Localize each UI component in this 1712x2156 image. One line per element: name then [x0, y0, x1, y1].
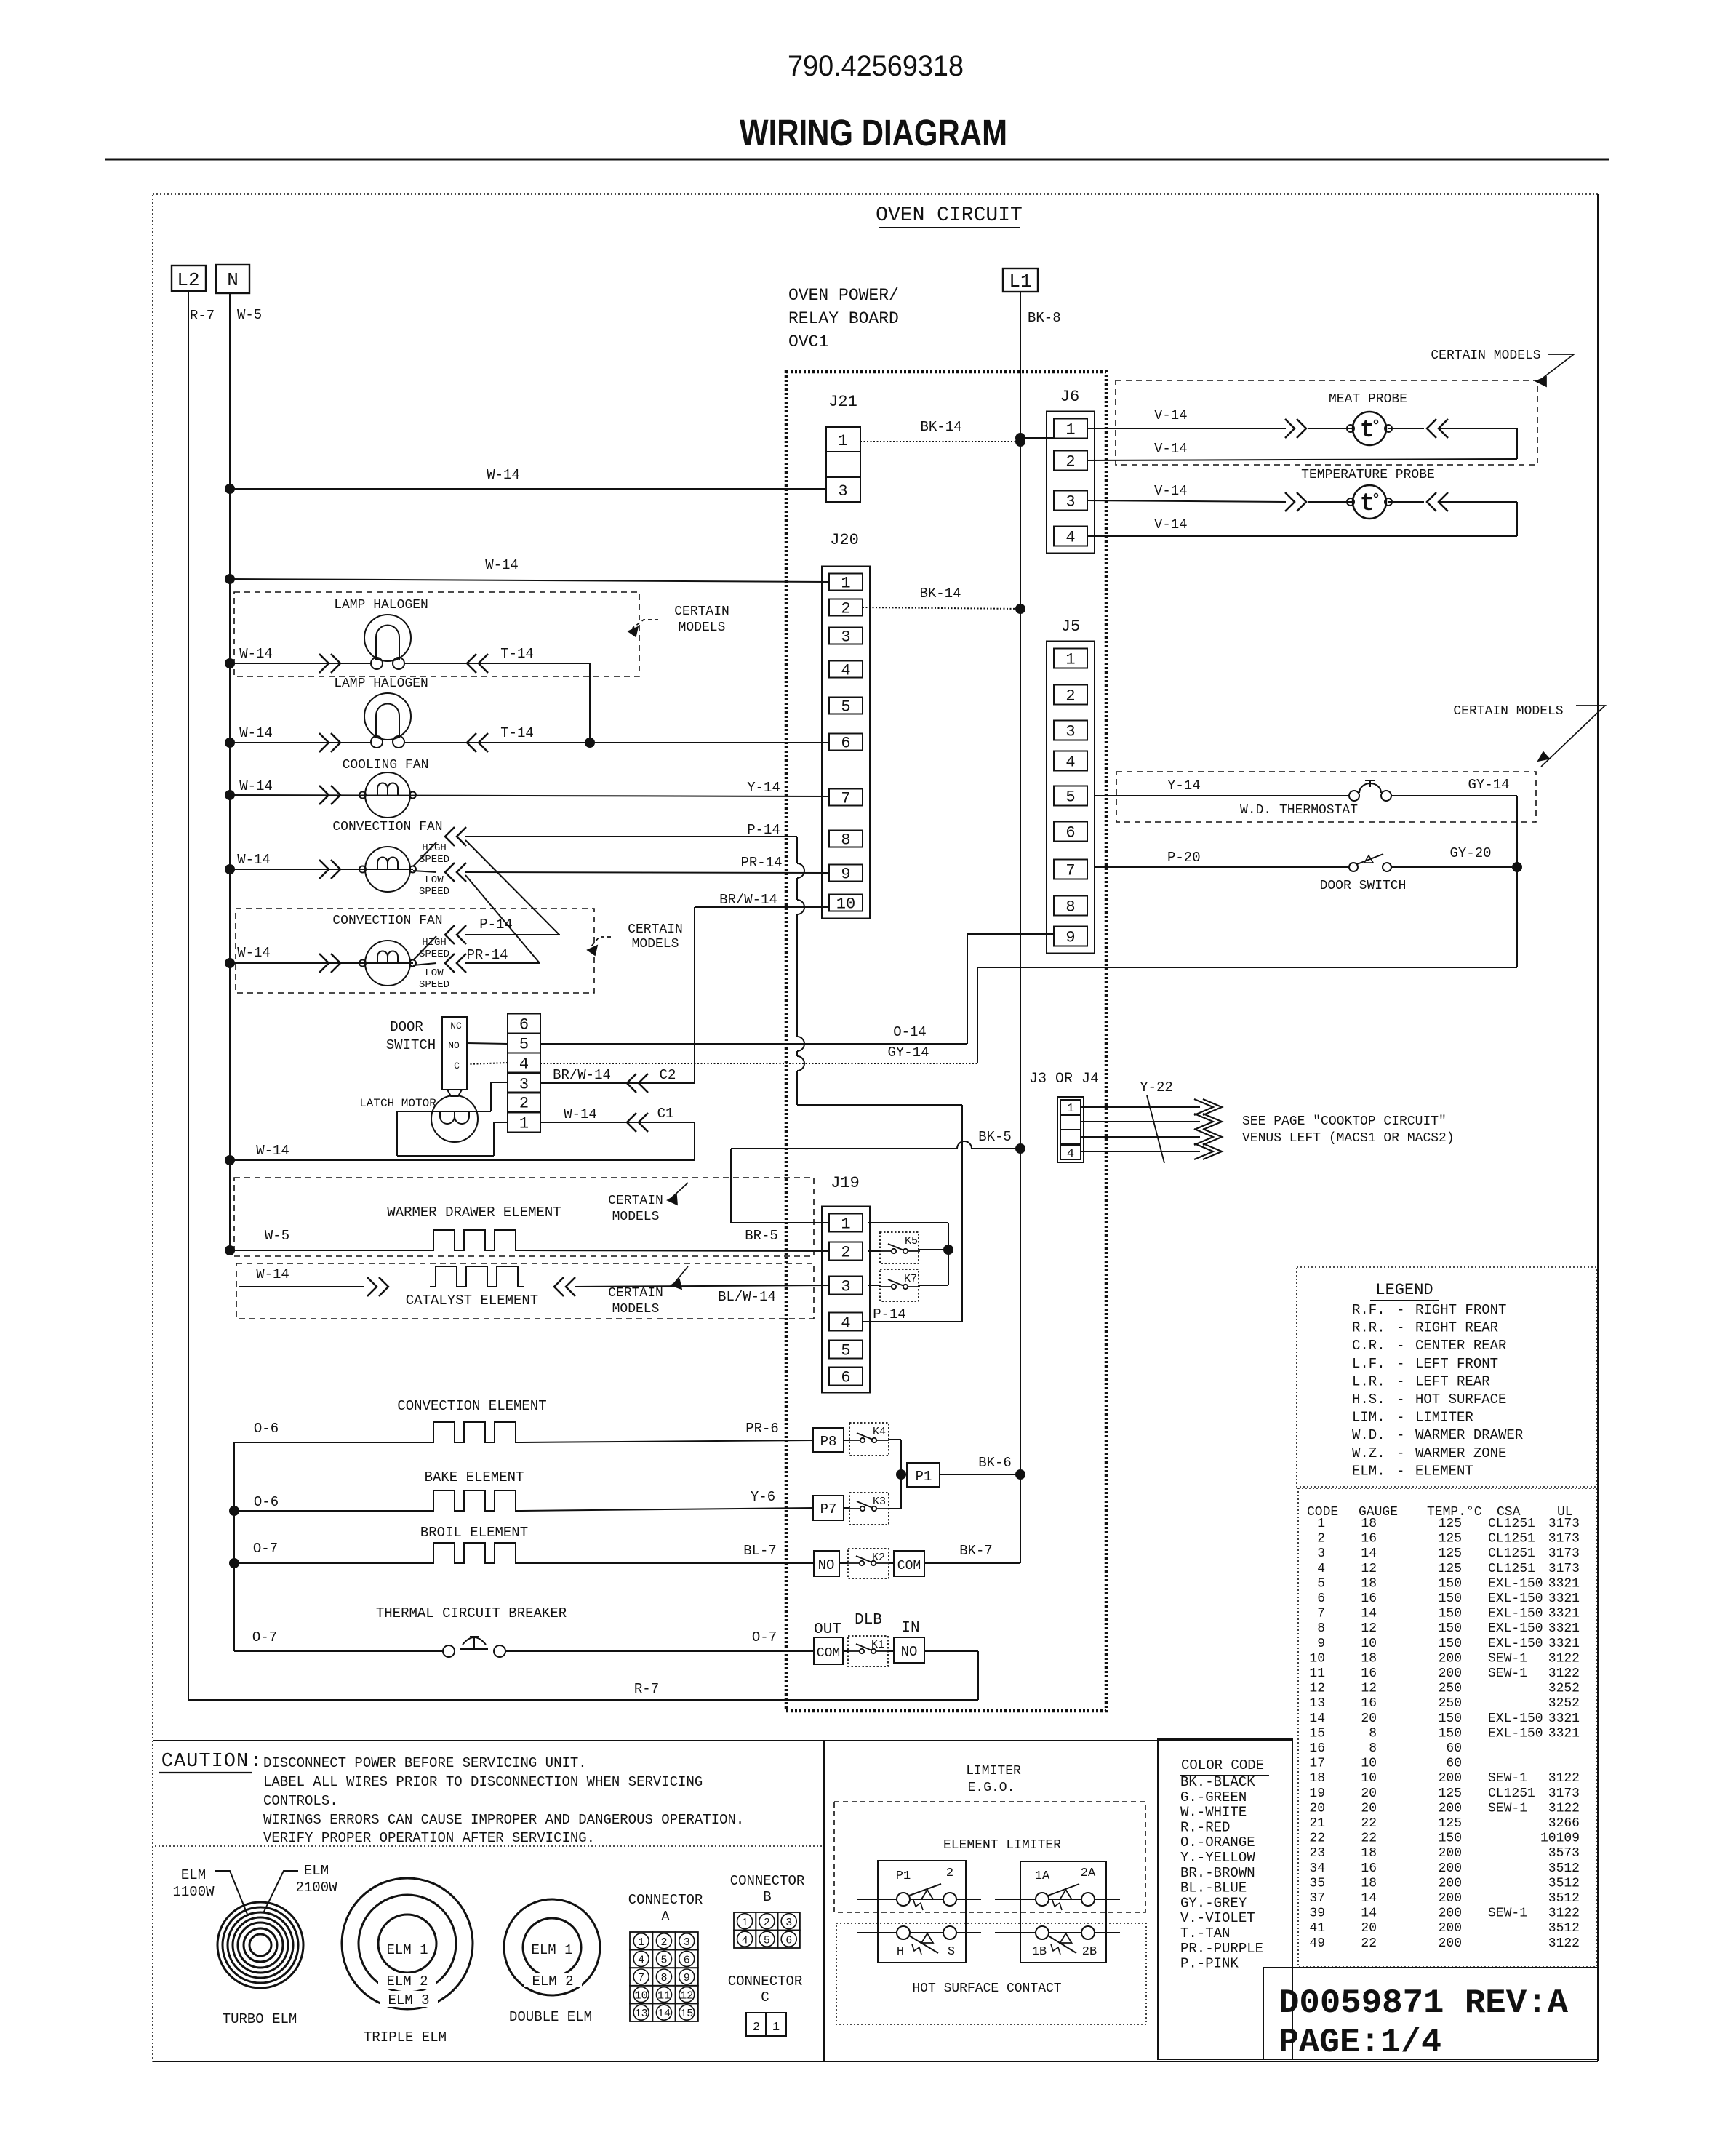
- svg-text:6: 6: [785, 1934, 792, 1947]
- svg-text:EXL-150: EXL-150: [1488, 1576, 1543, 1591]
- svg-text:COOLING FAN: COOLING FAN: [343, 758, 429, 772]
- svg-text:7: 7: [1065, 862, 1075, 880]
- svg-text:200: 200: [1439, 1861, 1462, 1876]
- svg-text:LEFT REAR: LEFT REAR: [1415, 1373, 1490, 1389]
- svg-text:12: 12: [1309, 1682, 1325, 1696]
- svg-text:EXL-150: EXL-150: [1488, 1726, 1543, 1741]
- svg-text:3321: 3321: [1548, 1712, 1580, 1726]
- svg-text:14: 14: [1361, 1607, 1377, 1621]
- svg-text:CATALYST ELEMENT: CATALYST ELEMENT: [406, 1293, 538, 1309]
- svg-text:T-14: T-14: [500, 646, 534, 662]
- svg-text:W-14: W-14: [239, 725, 273, 741]
- svg-text:1: 1: [841, 1215, 850, 1234]
- svg-text:W-5: W-5: [265, 1228, 289, 1244]
- svg-text:16: 16: [1361, 1666, 1377, 1681]
- svg-text:125: 125: [1439, 1532, 1462, 1546]
- svg-text:W.Z.: W.Z.: [1352, 1445, 1385, 1461]
- svg-text:LIMITER: LIMITER: [966, 1764, 1021, 1778]
- svg-text:PR-14: PR-14: [466, 947, 508, 963]
- svg-text:-: -: [1396, 1320, 1404, 1336]
- svg-text:150: 150: [1439, 1637, 1462, 1651]
- svg-text:LIM.: LIM.: [1352, 1410, 1385, 1426]
- svg-text:12: 12: [1361, 1621, 1377, 1636]
- svg-text:150: 150: [1439, 1712, 1462, 1726]
- svg-text:TEMPERATURE PROBE: TEMPERATURE PROBE: [1301, 468, 1435, 482]
- svg-text:150: 150: [1439, 1576, 1462, 1591]
- svg-text:CONVECTION FAN: CONVECTION FAN: [332, 820, 442, 834]
- svg-text:PR-14: PR-14: [740, 855, 782, 871]
- svg-text:N: N: [227, 269, 239, 291]
- svg-text:3122: 3122: [1548, 1907, 1580, 1921]
- svg-text:10: 10: [1361, 1771, 1377, 1786]
- svg-text:34: 34: [1309, 1861, 1325, 1876]
- svg-text:GY-14: GY-14: [1468, 777, 1509, 793]
- svg-text:2: 2: [764, 1917, 770, 1929]
- svg-text:P.-PINK: P.-PINK: [1180, 1956, 1239, 1972]
- svg-text:8: 8: [1369, 1726, 1377, 1741]
- svg-text:150: 150: [1439, 1726, 1462, 1741]
- svg-text:10: 10: [1309, 1651, 1325, 1666]
- svg-text:HOT SURFACE CONTACT: HOT SURFACE CONTACT: [912, 1981, 1061, 1996]
- svg-text:60: 60: [1446, 1741, 1462, 1756]
- svg-text:LOW: LOW: [425, 874, 444, 886]
- svg-text:22: 22: [1361, 1832, 1377, 1846]
- svg-text:7: 7: [1317, 1607, 1325, 1621]
- svg-text:W-14: W-14: [485, 557, 519, 573]
- svg-text:-: -: [1396, 1463, 1404, 1479]
- svg-text:3122: 3122: [1548, 1936, 1580, 1951]
- svg-text:RIGHT FRONT: RIGHT FRONT: [1415, 1302, 1506, 1318]
- svg-text:21: 21: [1309, 1816, 1325, 1831]
- svg-text:200: 200: [1439, 1666, 1462, 1681]
- svg-text:3: 3: [785, 1917, 792, 1929]
- svg-text:6: 6: [519, 1016, 529, 1034]
- svg-text:4: 4: [841, 1314, 850, 1333]
- svg-text:R.F.: R.F.: [1352, 1302, 1385, 1318]
- svg-text:O-6: O-6: [254, 1494, 279, 1510]
- svg-text:13: 13: [635, 2008, 648, 2020]
- svg-text:J19: J19: [831, 1174, 860, 1192]
- svg-text:W-5: W-5: [237, 307, 262, 323]
- svg-text:10: 10: [635, 1990, 648, 2003]
- svg-text:-: -: [1396, 1410, 1404, 1426]
- svg-text:10: 10: [836, 895, 855, 914]
- svg-text:W.D. THERMOSTAT: W.D. THERMOSTAT: [1240, 803, 1358, 818]
- svg-text:EXL-150: EXL-150: [1488, 1712, 1543, 1726]
- svg-text:BK-7: BK-7: [959, 1543, 993, 1559]
- svg-text:CL1251: CL1251: [1488, 1546, 1535, 1561]
- svg-text:BL-7: BL-7: [743, 1543, 777, 1559]
- svg-text:P8: P8: [820, 1434, 837, 1450]
- svg-text:BR/W-14: BR/W-14: [553, 1067, 611, 1083]
- svg-text:THERMAL CIRCUIT BREAKER: THERMAL CIRCUIT BREAKER: [376, 1605, 567, 1621]
- svg-text:BAKE ELEMENT: BAKE ELEMENT: [425, 1469, 524, 1485]
- svg-text:2B: 2B: [1082, 1945, 1097, 1959]
- svg-text:14: 14: [1361, 1907, 1377, 1921]
- svg-text:EXL-150: EXL-150: [1488, 1621, 1543, 1636]
- svg-text:3: 3: [1065, 493, 1075, 511]
- svg-text:60: 60: [1446, 1757, 1462, 1771]
- svg-text:17: 17: [1309, 1757, 1325, 1771]
- svg-text:K2: K2: [872, 1552, 885, 1564]
- svg-text:LABEL ALL WIRES PRIOR TO DISCO: LABEL ALL WIRES PRIOR TO DISCONNECTION W…: [263, 1774, 703, 1790]
- svg-text:E.G.O.: E.G.O.: [968, 1781, 1015, 1795]
- svg-text:200: 200: [1439, 1651, 1462, 1666]
- svg-text:5: 5: [764, 1934, 770, 1947]
- svg-text:CONNECTOR: CONNECTOR: [730, 1873, 805, 1889]
- svg-text:NO: NO: [448, 1040, 460, 1051]
- svg-text:L1: L1: [1009, 271, 1031, 292]
- svg-text:P-14: P-14: [873, 1306, 906, 1322]
- svg-text:1: 1: [1317, 1517, 1325, 1531]
- svg-text:MODELS: MODELS: [679, 620, 726, 635]
- svg-text:2: 2: [1317, 1532, 1325, 1546]
- svg-text:V-14: V-14: [1154, 516, 1188, 532]
- svg-text:9: 9: [1317, 1637, 1325, 1651]
- svg-text:RELAY BOARD: RELAY BOARD: [788, 309, 899, 328]
- svg-text:t: t: [1360, 490, 1375, 518]
- svg-text:P1: P1: [896, 1869, 911, 1883]
- svg-text:7: 7: [638, 1972, 644, 1984]
- svg-text:49: 49: [1309, 1936, 1325, 1951]
- svg-text:5: 5: [1065, 788, 1075, 807]
- svg-text:P-14: P-14: [747, 822, 780, 838]
- svg-text:WARMER ZONE: WARMER ZONE: [1415, 1445, 1506, 1461]
- svg-text:14: 14: [1361, 1891, 1377, 1906]
- svg-text:15: 15: [680, 2008, 693, 2020]
- svg-text:35: 35: [1309, 1876, 1325, 1891]
- svg-text:P-14: P-14: [479, 917, 513, 933]
- svg-text:2A: 2A: [1081, 1866, 1096, 1880]
- svg-text:14: 14: [1361, 1546, 1377, 1561]
- svg-text:4: 4: [638, 1954, 644, 1966]
- svg-text:GY-20: GY-20: [1449, 845, 1491, 861]
- svg-text:-: -: [1396, 1302, 1404, 1318]
- svg-text:C.R.: C.R.: [1352, 1338, 1385, 1354]
- svg-text:COM: COM: [897, 1559, 921, 1573]
- svg-text:-: -: [1396, 1356, 1404, 1372]
- svg-text:7: 7: [841, 790, 850, 808]
- svg-text:3266: 3266: [1548, 1816, 1580, 1831]
- svg-text:3122: 3122: [1548, 1801, 1580, 1816]
- svg-text:4: 4: [841, 662, 850, 680]
- svg-text:D0059871 REV:A: D0059871 REV:A: [1279, 1984, 1568, 2022]
- svg-text:J21: J21: [828, 393, 857, 411]
- svg-text:TURBO ELM: TURBO ELM: [223, 2011, 297, 2027]
- svg-text:3122: 3122: [1548, 1651, 1580, 1666]
- svg-text:1: 1: [742, 1917, 748, 1929]
- svg-text:T.-TAN: T.-TAN: [1180, 1925, 1230, 1941]
- svg-text:Y.-YELLOW: Y.-YELLOW: [1180, 1850, 1255, 1866]
- svg-text:8: 8: [841, 831, 850, 850]
- svg-text:J5: J5: [1061, 618, 1080, 636]
- svg-text:NO: NO: [818, 1557, 835, 1573]
- svg-text:PR.-PURPLE: PR.-PURPLE: [1180, 1941, 1263, 1957]
- svg-text:2: 2: [1065, 687, 1075, 706]
- svg-text:1100W: 1100W: [172, 1884, 215, 1900]
- svg-text:t: t: [1360, 417, 1375, 444]
- svg-text:S: S: [948, 1945, 955, 1959]
- svg-text:3: 3: [841, 628, 850, 647]
- svg-text:SEW-1: SEW-1: [1488, 1771, 1527, 1786]
- svg-text:H.S.: H.S.: [1352, 1392, 1385, 1408]
- svg-text:MODELS: MODELS: [632, 937, 679, 951]
- svg-text:8: 8: [1317, 1621, 1325, 1636]
- svg-text:16: 16: [1361, 1861, 1377, 1876]
- svg-text:1: 1: [1065, 421, 1075, 439]
- svg-text:8: 8: [1065, 898, 1075, 917]
- svg-text:CL1251: CL1251: [1488, 1562, 1535, 1576]
- svg-text:Y-6: Y-6: [751, 1489, 775, 1505]
- svg-text:CONVECTION ELEMENT: CONVECTION ELEMENT: [397, 1398, 546, 1414]
- svg-text:SWITCH: SWITCH: [386, 1037, 436, 1053]
- svg-text:L.R.: L.R.: [1352, 1373, 1385, 1389]
- svg-text:DOOR: DOOR: [390, 1019, 423, 1035]
- svg-text:A: A: [661, 1909, 670, 1925]
- svg-text:12: 12: [680, 1990, 693, 2003]
- svg-text:BK-6: BK-6: [978, 1455, 1012, 1471]
- svg-text:3512: 3512: [1548, 1891, 1580, 1906]
- svg-text:200: 200: [1439, 1907, 1462, 1921]
- svg-text::: :: [250, 1751, 262, 1773]
- svg-text:-: -: [1396, 1373, 1404, 1389]
- svg-text:20: 20: [1361, 1712, 1377, 1726]
- svg-text:MODELS: MODELS: [612, 1302, 660, 1317]
- svg-text:16: 16: [1309, 1741, 1325, 1756]
- svg-text:W.D.: W.D.: [1352, 1427, 1385, 1443]
- svg-text:6: 6: [841, 1369, 850, 1387]
- svg-text:1: 1: [841, 575, 850, 593]
- svg-text:3173: 3173: [1548, 1562, 1580, 1576]
- svg-text:200: 200: [1439, 1921, 1462, 1936]
- svg-text:ELM 3: ELM 3: [388, 1992, 429, 2008]
- svg-text:3573: 3573: [1548, 1846, 1580, 1861]
- svg-text:MODELS: MODELS: [612, 1210, 660, 1224]
- svg-text:CONTROLS.: CONTROLS.: [263, 1793, 338, 1809]
- svg-text:2: 2: [660, 1936, 667, 1949]
- svg-text:V-14: V-14: [1154, 441, 1188, 457]
- svg-text:5: 5: [519, 1036, 529, 1054]
- svg-text:15: 15: [1309, 1726, 1325, 1741]
- svg-text:C1: C1: [657, 1106, 674, 1122]
- svg-text:WARMER DRAWER: WARMER DRAWER: [1415, 1427, 1523, 1443]
- svg-text:RIGHT REAR: RIGHT REAR: [1415, 1320, 1498, 1336]
- svg-text:22: 22: [1309, 1832, 1325, 1846]
- svg-text:J20: J20: [830, 531, 859, 549]
- svg-text:37: 37: [1309, 1891, 1325, 1906]
- svg-text:9: 9: [841, 866, 850, 884]
- svg-text:BK-14: BK-14: [920, 419, 961, 435]
- svg-text:1: 1: [838, 432, 847, 450]
- svg-text:Y-14: Y-14: [1167, 778, 1201, 794]
- svg-text:PAGE:1/4: PAGE:1/4: [1279, 2024, 1441, 2061]
- svg-text:DOUBLE ELM: DOUBLE ELM: [509, 2009, 592, 2025]
- svg-text:125: 125: [1439, 1562, 1462, 1576]
- svg-text:250: 250: [1439, 1682, 1462, 1696]
- svg-text:5: 5: [660, 1954, 667, 1966]
- svg-text:P-20: P-20: [1167, 850, 1201, 866]
- svg-text:200: 200: [1439, 1936, 1462, 1951]
- svg-text:BL.-BLUE: BL.-BLUE: [1180, 1880, 1247, 1896]
- svg-text:R-7: R-7: [190, 308, 215, 324]
- svg-text:3512: 3512: [1548, 1921, 1580, 1936]
- svg-text:4: 4: [1067, 1147, 1074, 1161]
- svg-text:3173: 3173: [1548, 1532, 1580, 1546]
- svg-text:200: 200: [1439, 1801, 1462, 1816]
- svg-text:20: 20: [1309, 1801, 1325, 1816]
- svg-text:14: 14: [657, 2008, 671, 2020]
- svg-text:3321: 3321: [1548, 1576, 1580, 1591]
- svg-text:R.-RED: R.-RED: [1180, 1819, 1230, 1835]
- svg-text:1A: 1A: [1035, 1869, 1050, 1883]
- svg-text:CL1251: CL1251: [1488, 1786, 1535, 1801]
- svg-text:J3 OR J4: J3 OR J4: [1029, 1071, 1099, 1087]
- svg-text:3: 3: [1065, 723, 1075, 741]
- svg-text:W-14: W-14: [237, 852, 271, 868]
- svg-text:10: 10: [1361, 1637, 1377, 1651]
- svg-text:5: 5: [841, 698, 850, 716]
- svg-text:-: -: [1396, 1427, 1404, 1443]
- svg-text:ELM 1: ELM 1: [531, 1942, 572, 1958]
- svg-text:2: 2: [753, 2021, 760, 2035]
- svg-text:SEW-1: SEW-1: [1488, 1801, 1527, 1816]
- svg-text:LEGEND: LEGEND: [1375, 1281, 1433, 1299]
- svg-text:4: 4: [742, 1934, 748, 1947]
- svg-text:ELEMENT LIMITER: ELEMENT LIMITER: [943, 1838, 1061, 1853]
- svg-text:CERTAIN MODELS: CERTAIN MODELS: [1453, 704, 1563, 719]
- svg-text:3173: 3173: [1548, 1786, 1580, 1801]
- svg-text:V.-VIOLET: V.-VIOLET: [1180, 1910, 1255, 1926]
- svg-text:T-14: T-14: [500, 725, 534, 741]
- svg-text:CENTER REAR: CENTER REAR: [1415, 1338, 1506, 1354]
- svg-text:2: 2: [841, 1244, 850, 1262]
- svg-text:G.-GREEN: G.-GREEN: [1180, 1789, 1247, 1805]
- svg-text:3321: 3321: [1548, 1726, 1580, 1741]
- svg-text:LOW: LOW: [425, 967, 444, 979]
- svg-text:WIRINGS ERRORS CAN CAUSE IMPRO: WIRINGS ERRORS CAN CAUSE IMPROPER AND DA…: [263, 1812, 744, 1828]
- svg-text:6: 6: [841, 735, 850, 753]
- svg-text:SEW-1: SEW-1: [1488, 1651, 1527, 1666]
- svg-text:ELM: ELM: [181, 1867, 206, 1883]
- svg-text:CERTAIN: CERTAIN: [608, 1194, 663, 1208]
- svg-text:EXL-150: EXL-150: [1488, 1607, 1543, 1621]
- svg-text:ELEMENT: ELEMENT: [1415, 1463, 1473, 1479]
- svg-text:22: 22: [1361, 1816, 1377, 1831]
- svg-text:5: 5: [1317, 1576, 1325, 1591]
- svg-text:ELM: ELM: [304, 1863, 329, 1879]
- svg-text:790.42569318: 790.42569318: [788, 50, 964, 82]
- svg-text:VENUS LEFT (MACS1 OR MACS2): VENUS LEFT (MACS1 OR MACS2): [1242, 1131, 1455, 1146]
- svg-text:6: 6: [684, 1954, 690, 1966]
- svg-text:23: 23: [1309, 1846, 1325, 1861]
- svg-text:1B: 1B: [1032, 1945, 1047, 1959]
- svg-text:3321: 3321: [1548, 1592, 1580, 1606]
- svg-text:K4: K4: [873, 1426, 886, 1438]
- svg-text:125: 125: [1439, 1786, 1462, 1801]
- svg-text:20: 20: [1361, 1921, 1377, 1936]
- svg-text:1: 1: [519, 1115, 529, 1133]
- svg-text:W-14: W-14: [256, 1143, 289, 1159]
- svg-text:3512: 3512: [1548, 1861, 1580, 1876]
- svg-text:GY.-GREY: GY.-GREY: [1180, 1895, 1247, 1911]
- svg-text:O-6: O-6: [254, 1421, 279, 1437]
- svg-text:BR-5: BR-5: [745, 1228, 778, 1244]
- svg-text:18: 18: [1361, 1517, 1377, 1531]
- svg-text:C2: C2: [660, 1067, 676, 1083]
- svg-text:WIRING DIAGRAM: WIRING DIAGRAM: [740, 112, 1007, 153]
- svg-text:22: 22: [1361, 1936, 1377, 1951]
- svg-text:16: 16: [1361, 1592, 1377, 1606]
- svg-text:8: 8: [1369, 1741, 1377, 1756]
- svg-text:H: H: [897, 1945, 904, 1959]
- svg-text:TRIPLE ELM: TRIPLE ELM: [364, 2029, 447, 2045]
- svg-text:NO: NO: [901, 1644, 918, 1660]
- svg-text:39: 39: [1309, 1907, 1325, 1921]
- svg-text:3321: 3321: [1548, 1607, 1580, 1621]
- svg-text:SPEED: SPEED: [419, 979, 449, 991]
- svg-text:6: 6: [1317, 1592, 1325, 1606]
- svg-text:200: 200: [1439, 1876, 1462, 1891]
- svg-text:BK.-BLACK: BK.-BLACK: [1180, 1774, 1255, 1790]
- svg-text:W-14: W-14: [487, 467, 520, 483]
- svg-text:3252: 3252: [1548, 1682, 1580, 1696]
- svg-text:200: 200: [1439, 1771, 1462, 1786]
- svg-text:CONNECTOR: CONNECTOR: [628, 1892, 703, 1908]
- svg-text:HOT SURFACE: HOT SURFACE: [1415, 1392, 1506, 1408]
- svg-text:3321: 3321: [1548, 1621, 1580, 1636]
- svg-text:CL1251: CL1251: [1488, 1532, 1535, 1546]
- svg-text:DISCONNECT POWER BEFORE SERVIC: DISCONNECT POWER BEFORE SERVICING UNIT.: [263, 1755, 587, 1771]
- svg-text:BK-14: BK-14: [919, 586, 961, 602]
- svg-text:10109: 10109: [1540, 1832, 1580, 1846]
- svg-text:CAUTION: CAUTION: [161, 1751, 249, 1773]
- svg-text:200: 200: [1439, 1891, 1462, 1906]
- svg-text:EXL-150: EXL-150: [1488, 1637, 1543, 1651]
- svg-text:R.R.: R.R.: [1352, 1320, 1385, 1336]
- svg-text:OVC1: OVC1: [788, 332, 828, 351]
- svg-text:CONVECTION FAN: CONVECTION FAN: [332, 914, 442, 928]
- svg-text:B: B: [763, 1889, 771, 1905]
- svg-text:V-14: V-14: [1154, 483, 1188, 499]
- svg-text:SEW-1: SEW-1: [1488, 1666, 1527, 1681]
- svg-text:4: 4: [1065, 754, 1075, 772]
- svg-text:10: 10: [1361, 1757, 1377, 1771]
- svg-text:J6: J6: [1060, 388, 1079, 406]
- svg-text:VERIFY PROPER OPERATION AFTER: VERIFY PROPER OPERATION AFTER SERVICING.: [263, 1830, 595, 1846]
- svg-text:V-14: V-14: [1154, 407, 1188, 423]
- svg-text:41: 41: [1309, 1921, 1325, 1936]
- svg-text:LEFT FRONT: LEFT FRONT: [1415, 1356, 1498, 1372]
- svg-text:1: 1: [638, 1936, 644, 1949]
- svg-text:3173: 3173: [1548, 1546, 1580, 1561]
- svg-text:P1: P1: [916, 1469, 932, 1485]
- svg-text:16: 16: [1361, 1532, 1377, 1546]
- svg-text:3: 3: [684, 1936, 690, 1949]
- svg-text:2: 2: [946, 1866, 953, 1880]
- svg-text:W-14: W-14: [239, 646, 273, 662]
- svg-text:4: 4: [519, 1055, 529, 1074]
- svg-text:C: C: [761, 1989, 769, 2005]
- svg-text:20: 20: [1361, 1786, 1377, 1801]
- svg-text:2100W: 2100W: [295, 1880, 337, 1896]
- svg-text:W.-WHITE: W.-WHITE: [1180, 1805, 1247, 1821]
- svg-text:20: 20: [1361, 1801, 1377, 1816]
- svg-text:250: 250: [1439, 1696, 1462, 1711]
- svg-text:13: 13: [1309, 1696, 1325, 1711]
- svg-text:-: -: [1396, 1338, 1404, 1354]
- svg-text:6: 6: [1065, 824, 1075, 842]
- svg-text:BROIL ELEMENT: BROIL ELEMENT: [420, 1525, 528, 1541]
